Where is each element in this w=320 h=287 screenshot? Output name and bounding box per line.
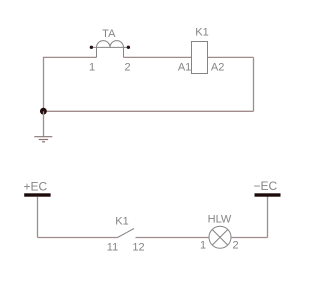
svg-text:K1: K1 bbox=[195, 27, 208, 39]
wire: TA pin 2 to K1 coil A1 bbox=[124, 56, 192, 58]
wire: bottom return to junction bbox=[43, 110, 254, 112]
svg-text:A2: A2 bbox=[211, 62, 224, 74]
lamp HLW bbox=[209, 226, 231, 248]
wire: top horizontal, corner to TA pin 1 bbox=[43, 56, 97, 58]
wire: right vertical drop bbox=[253, 57, 255, 111]
svg-text:2: 2 bbox=[124, 62, 130, 74]
wire: K1 coil A2 to right corner bbox=[208, 56, 254, 58]
ground bbox=[34, 137, 52, 142]
wire: lamp pin 2 to -EC bbox=[231, 237, 268, 239]
svg-text:1: 1 bbox=[200, 240, 206, 252]
svg-text:12: 12 bbox=[132, 242, 144, 254]
svg-text:2: 2 bbox=[232, 240, 238, 252]
svg-text:+EC: +EC bbox=[24, 180, 48, 194]
wire: left vertical (top loop) bbox=[43, 57, 45, 111]
contact K1 (NO) blade bbox=[118, 229, 135, 238]
TA polarity dot left bbox=[90, 46, 93, 49]
wire: +EC to contact K1 pin 11 bbox=[38, 237, 118, 239]
svg-text:−EC: −EC bbox=[253, 179, 277, 193]
relay coil K1 bbox=[192, 42, 208, 74]
TA polarity dot right bbox=[127, 46, 130, 49]
svg-text:1: 1 bbox=[89, 62, 95, 74]
current transformer TA bbox=[91, 41, 129, 58]
svg-text:K1: K1 bbox=[115, 216, 128, 228]
wire: junction to ground bbox=[43, 111, 45, 136]
wire: -EC stem bbox=[267, 197, 269, 238]
junction node bbox=[40, 108, 47, 115]
svg-text:HLW: HLW bbox=[208, 214, 232, 226]
svg-text:11: 11 bbox=[107, 242, 118, 254]
terminal +EC bbox=[24, 193, 50, 196]
wire: +EC stem bbox=[37, 197, 39, 238]
svg-text:A1: A1 bbox=[178, 62, 191, 74]
wire: contact pin 12 to lamp pin 1 bbox=[136, 237, 210, 239]
svg-text:TA: TA bbox=[102, 28, 116, 40]
terminal -EC bbox=[255, 193, 281, 196]
